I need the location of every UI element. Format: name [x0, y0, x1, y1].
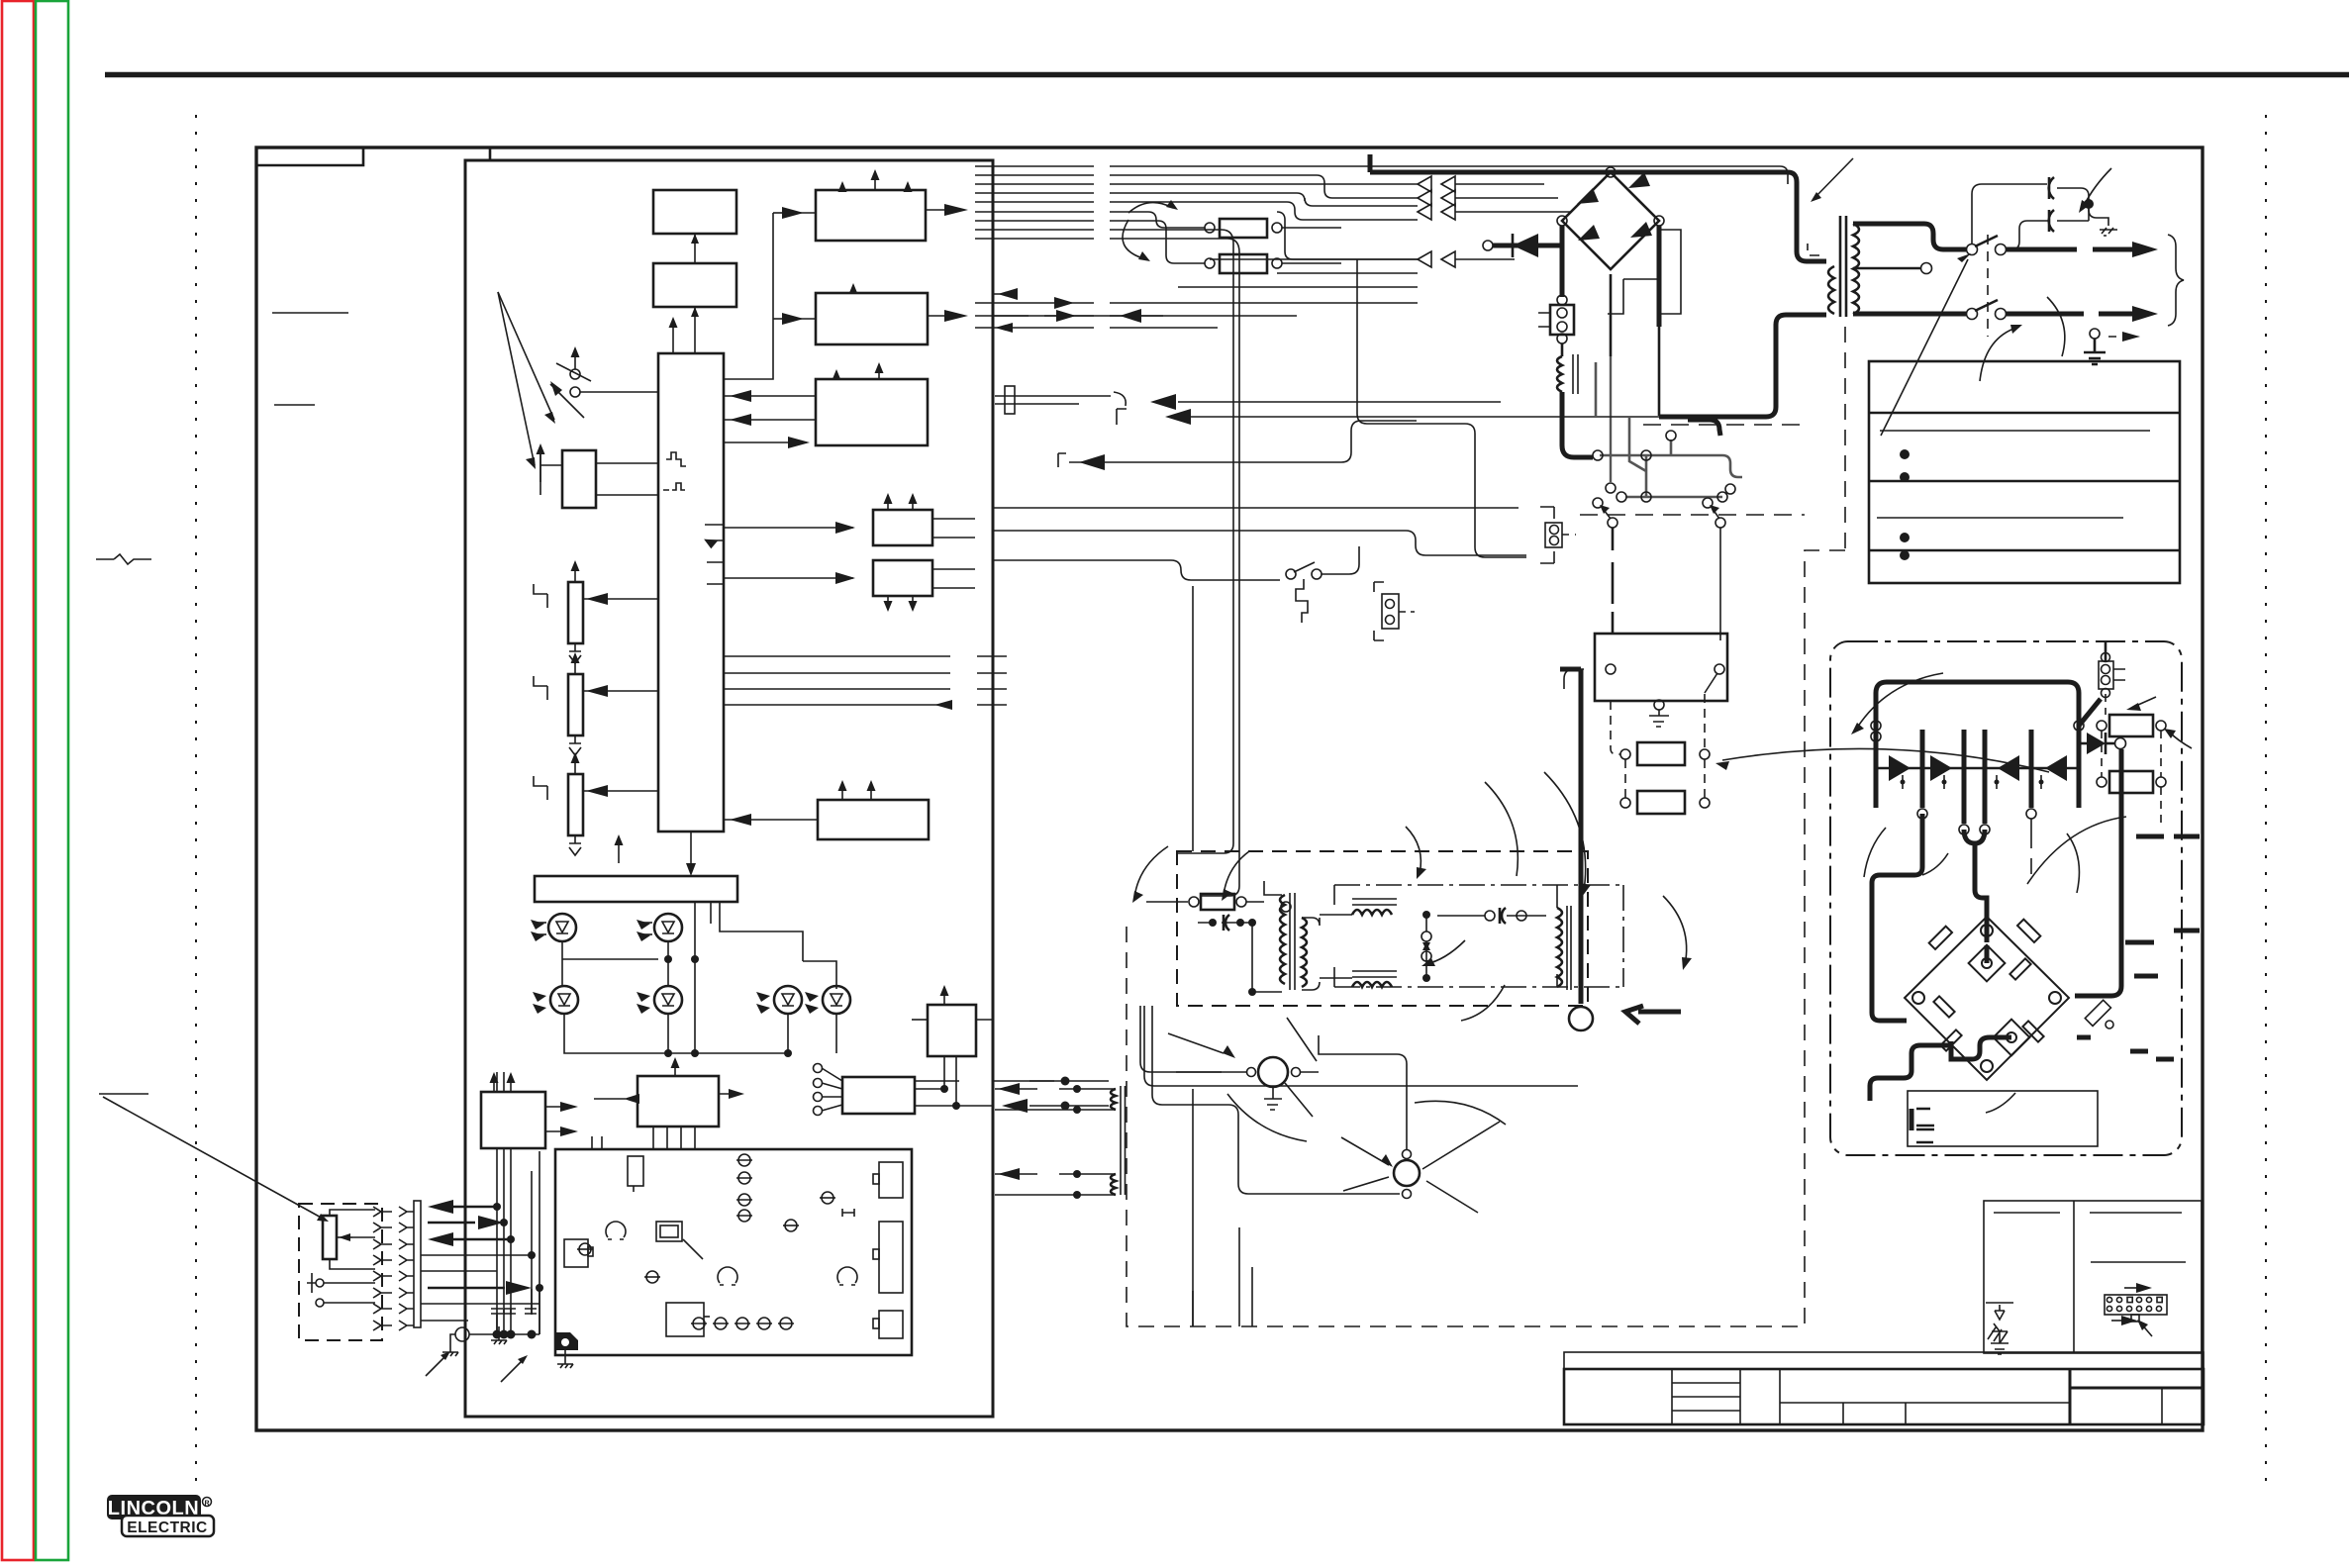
remote control dashed box	[299, 1204, 382, 1340]
display pc board	[555, 1149, 912, 1355]
microcontroller tall block	[658, 353, 724, 832]
schematic outer border	[256, 147, 2203, 1430]
pcb diamond	[1905, 917, 2069, 1080]
vertical wire bundle up into boxes	[497, 1148, 539, 1334]
scr diodes	[1876, 767, 1985, 770]
remote pot	[323, 1216, 337, 1259]
dots and arrows right of control box	[1061, 1077, 1070, 1086]
thick DC bus	[1876, 682, 2079, 730]
lines continuing right from 1092/1117	[1029, 1080, 1109, 1082]
thermostat diode pairs	[1418, 176, 1455, 267]
block: driver 2	[816, 293, 928, 344]
input bus lines from control board	[975, 166, 1094, 239]
wire: vertical to HF unit	[1192, 586, 1194, 851]
top heavy rule	[105, 72, 2349, 78]
resistor bank	[1620, 749, 1630, 759]
wires: bridge AC feeders	[1178, 259, 1418, 287]
wires y340 region	[993, 315, 1163, 317]
thick dashes right	[2077, 836, 2200, 1059]
pot 3	[568, 774, 583, 835]
wire: bus wrap corners	[1277, 175, 1418, 259]
wire up into A	[694, 307, 696, 353]
block right middle	[818, 800, 929, 839]
switch contacts	[1967, 245, 1978, 255]
clock box left of cpu	[562, 450, 596, 508]
callout circle selector A	[1258, 1057, 1288, 1087]
core	[1839, 216, 1842, 317]
box behind bridge right	[1608, 230, 1681, 314]
resistor pair in output box	[2097, 721, 2107, 731]
thick jog top	[1688, 420, 1720, 436]
HF resistor	[1189, 897, 1199, 907]
connector CB1	[1557, 295, 1567, 305]
block: driver 3	[816, 379, 928, 445]
top right thick feed to transformer	[1370, 172, 1826, 261]
block: gate driver top right	[816, 190, 926, 241]
relay box FAN	[1595, 634, 1727, 701]
main transformer T1 primary	[1828, 266, 1834, 314]
CR connector mid	[1382, 594, 1399, 629]
wires to fan circle and output	[1140, 1006, 1246, 1072]
big arrows on harness	[428, 1200, 453, 1214]
thick runs	[2075, 749, 2121, 996]
spark gap	[1421, 931, 1431, 941]
air inductors	[1352, 899, 1397, 905]
wires from thermostat diodes to bridge	[1455, 184, 1572, 259]
pot 2	[568, 674, 583, 735]
aux circuit to caps	[1972, 184, 2047, 245]
inductor L	[1557, 356, 1562, 392]
wiring between optos	[562, 941, 658, 986]
leader lines to power switch	[498, 292, 554, 420]
remote switch	[316, 1279, 324, 1287]
left dotted fold line	[195, 115, 197, 1490]
label underline 2	[274, 404, 315, 406]
pot 1	[568, 582, 583, 643]
bottom rail + terminal	[455, 1327, 469, 1341]
leader arrows top	[1813, 158, 1853, 199]
title tab top-left	[256, 147, 363, 165]
wire: resistor feeders and long drops	[1148, 212, 1239, 896]
gate stubs	[1903, 775, 2041, 789]
leader arcs	[1128, 203, 1173, 213]
wires from box M/N to right bus	[915, 1081, 1054, 1106]
small arrows into cpu left	[692, 524, 694, 526]
leader arrow into left border	[96, 554, 151, 564]
green margin bar	[36, 1, 68, 1560]
dashed gang line	[1987, 235, 1989, 337]
red margin bar	[2, 1, 34, 1560]
secondary bottom lead	[1853, 312, 1966, 317]
precharge resistors	[1205, 223, 1215, 233]
dash-dot inner frame	[1334, 885, 1623, 987]
leader arcs bottom	[1227, 1094, 1307, 1141]
dashed wire bundle bottom	[1193, 1267, 1252, 1326]
drop stubs below bars	[2030, 819, 2032, 874]
connector bar	[414, 1201, 421, 1327]
leader arcs	[2027, 817, 2126, 884]
out lines with arrows	[2007, 247, 2077, 252]
bottom circles / U link	[1917, 809, 1927, 819]
led column	[577, 1154, 854, 1329]
coupling coil right	[1557, 908, 1562, 987]
cap 2	[2049, 210, 2054, 232]
connector at top right	[2105, 641, 2107, 661]
SCR bars	[1874, 730, 1879, 808]
block: power supply 2	[653, 263, 736, 307]
block H	[873, 510, 932, 545]
wires 400/408 with fuse	[995, 396, 1111, 404]
wire A->B	[694, 234, 696, 263]
svg-text:ELECTRIC: ELECTRIC	[127, 1519, 208, 1536]
control PC board outline	[465, 160, 993, 1417]
center tap	[1853, 267, 1920, 270]
secondary top lead	[1853, 224, 1966, 249]
harness rails to control box	[421, 1255, 539, 1321]
output terminal	[1579, 669, 1584, 1004]
lamp symbols	[606, 1222, 626, 1239]
CR aux connector	[1545, 523, 1562, 547]
bridge bottom drop	[1610, 274, 1613, 356]
block bottom-left 1	[481, 1092, 545, 1148]
HF transformer	[1280, 895, 1285, 984]
switch upper left of cpu	[570, 369, 580, 379]
HF unit dashed box	[1177, 851, 1588, 1006]
wires below control box to pcb	[653, 1127, 695, 1149]
aux current transformer	[1111, 1089, 1116, 1110]
wire group: control signals 306/319/331	[975, 294, 1418, 328]
ground at right	[2090, 329, 2100, 339]
thick return from scr area to primary bottom	[1659, 315, 1826, 417]
label box	[1908, 1091, 2098, 1146]
arrows up from blocks	[838, 181, 847, 192]
opto row 2	[550, 986, 578, 1014]
cpu down arrow to bus bar	[690, 832, 692, 863]
cpu to driver3 lines with arrows left	[724, 395, 816, 397]
tick on top border	[489, 147, 492, 161]
block bottom right	[928, 1005, 976, 1056]
dashed enclosure lines	[1580, 514, 1805, 516]
block I	[873, 560, 932, 596]
black corner mount	[556, 1332, 578, 1350]
output dash-dot enclosure	[1830, 641, 2182, 1155]
cpu out lines right	[724, 656, 1007, 705]
small component mid pcb	[646, 1271, 658, 1283]
grounds below pcb	[557, 1350, 573, 1368]
left connector on pcb	[564, 1239, 588, 1267]
chevron harness	[373, 1207, 414, 1330]
small rotated resistor	[2085, 1000, 2110, 1026]
opto row 1	[548, 914, 576, 941]
cap 1	[2049, 177, 2054, 199]
label underline left	[272, 312, 348, 314]
brace	[2168, 235, 2184, 326]
connectors right side of pcb	[879, 1162, 903, 1198]
notes table	[1869, 361, 2180, 583]
svg-text:R: R	[204, 1501, 209, 1508]
secondary winding	[1853, 224, 1859, 314]
right diode to stud	[2087, 733, 2106, 754]
block bottom 3 with pin circles	[842, 1077, 915, 1114]
thick diode feed on left of bridge	[1483, 241, 1493, 250]
capacitors on bundle	[491, 1309, 537, 1314]
HF cap	[1198, 922, 1249, 924]
leader arc to cap	[2084, 168, 2111, 206]
LED bus bar	[535, 876, 737, 902]
waveform glyphs	[666, 452, 686, 466]
out arrows right of driver blocks	[926, 209, 950, 211]
thick feed corner	[1562, 392, 1593, 457]
dashed boundary near transformer	[1844, 327, 1846, 550]
gray control bus	[1596, 362, 1742, 497]
right dotted fold line	[2265, 115, 2267, 1490]
feed arrows into drivers from CPU	[773, 212, 788, 214]
arrows up from CPU	[672, 319, 674, 353]
block: power supply top	[653, 190, 736, 234]
callout circle selector B	[1394, 1160, 1420, 1186]
leader line to remote	[103, 1097, 325, 1220]
HV cap	[1437, 915, 1546, 917]
block bottom 2	[637, 1076, 719, 1127]
input bridge CR1	[1557, 167, 1664, 269]
switch contacts to relay box	[1593, 498, 1603, 508]
long control wires	[1058, 453, 1066, 467]
